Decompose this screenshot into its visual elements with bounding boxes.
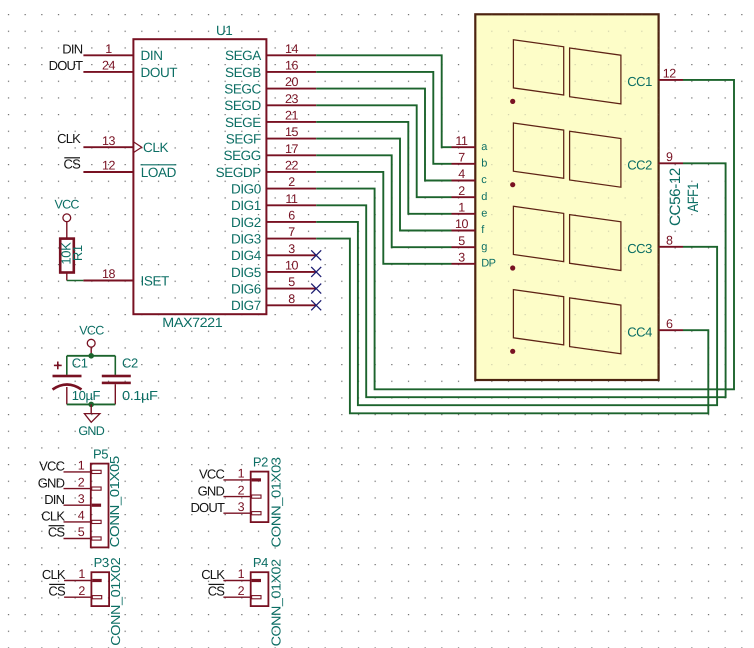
- svg-text:C1: C1: [72, 355, 88, 370]
- svg-text:DP: DP: [481, 257, 495, 269]
- svg-text:8: 8: [666, 234, 673, 248]
- digit 2 left segment block: [513, 123, 563, 178]
- svg-text:VCC: VCC: [79, 323, 104, 337]
- svg-text:ISET: ISET: [141, 273, 170, 288]
- svg-text:P4: P4: [253, 555, 268, 570]
- svg-text:GND: GND: [78, 424, 104, 438]
- pin 7 DIG3 of U1: [266, 238, 316, 240]
- svg-text:DIG1: DIG1: [231, 198, 261, 213]
- pin 1 of P2: [223, 479, 250, 481]
- wire SEGD-d: [316, 105, 451, 197]
- svg-text:MAX7221: MAX7221: [162, 315, 222, 330]
- pin 4 c of AFF1: [452, 180, 476, 182]
- pin 1 of P4: [223, 580, 250, 582]
- svg-text:VCC: VCC: [39, 459, 64, 474]
- pin 24 DOUT of U1: [83, 71, 133, 73]
- pin 2 of P2: [223, 496, 250, 498]
- pin 5 DIG6 of U1: [266, 288, 316, 290]
- svg-text:2: 2: [238, 584, 245, 598]
- svg-text:12: 12: [663, 67, 677, 81]
- svg-text:12: 12: [102, 159, 116, 173]
- svg-text:CC56-12: CC56-12: [667, 168, 684, 226]
- svg-text:CS: CS: [208, 583, 226, 598]
- svg-text:SEGE: SEGE: [225, 115, 261, 130]
- svg-text:10µF: 10µF: [72, 388, 101, 403]
- svg-text:DIG3: DIG3: [231, 232, 261, 247]
- svg-text:23: 23: [285, 92, 299, 106]
- svg-text:17: 17: [285, 142, 299, 156]
- wire SEGF-f: [316, 139, 451, 231]
- svg-text:CC1: CC1: [627, 74, 652, 89]
- svg-text:P5: P5: [93, 447, 108, 462]
- pin 12 CC1 of AFF1: [659, 79, 683, 81]
- svg-text:SEGA: SEGA: [225, 48, 261, 63]
- pin 6 CC4 of AFF1: [659, 329, 683, 331]
- svg-text:13: 13: [102, 134, 116, 148]
- pin 1 DIN of U1: [83, 54, 133, 56]
- svg-text:g: g: [481, 241, 487, 253]
- wire to C2 top: [114, 356, 116, 375]
- digit 3 left segment block: [513, 206, 563, 261]
- svg-text:C2: C2: [122, 355, 138, 370]
- svg-text:DOUT: DOUT: [190, 500, 224, 515]
- ground symbol: [90, 404, 92, 413]
- digit 2 right segment block: [570, 131, 621, 187]
- pin 16 SEGB of U1: [266, 71, 316, 73]
- svg-text:SEGDP: SEGDP: [216, 165, 262, 180]
- pin 1 of P5: [64, 471, 91, 473]
- pin 7 b of AFF1: [452, 163, 476, 165]
- pin 2 d of AFF1: [452, 196, 476, 198]
- svg-text:P3: P3: [94, 555, 109, 570]
- digit 3 right segment block: [570, 215, 621, 271]
- svg-text:6: 6: [288, 208, 295, 222]
- pin 11 a of AFF1: [452, 146, 476, 148]
- capacitor C2: [102, 375, 131, 378]
- svg-text:2: 2: [238, 483, 245, 497]
- svg-text:15: 15: [285, 125, 299, 139]
- wire to C1 top: [66, 356, 68, 375]
- svg-text:DIN: DIN: [141, 48, 163, 63]
- svg-text:24: 24: [102, 59, 116, 73]
- pin 6 DIG2 of U1: [266, 221, 316, 223]
- svg-text:4: 4: [78, 509, 85, 523]
- pin 1 e of AFF1: [452, 213, 476, 215]
- pin 21 SEGE of U1: [266, 121, 316, 123]
- svg-text:CS: CS: [48, 583, 66, 598]
- pin 11 DIG1 of U1: [266, 204, 316, 206]
- svg-text:10: 10: [455, 217, 469, 231]
- svg-text:CONN_01X02: CONN_01X02: [268, 559, 283, 646]
- digit 4 right segment block: [570, 298, 621, 354]
- svg-text:DOUT: DOUT: [141, 65, 178, 80]
- R1 bottom lead: [66, 273, 68, 281]
- pin 8 CC3 of AFF1: [659, 246, 683, 248]
- wire SEGC-c: [316, 89, 451, 181]
- svg-text:e: e: [481, 207, 487, 219]
- pin 2 of P3: [64, 596, 91, 598]
- pin 2 DIG0 of U1: [266, 188, 316, 190]
- svg-text:DIG5: DIG5: [231, 265, 261, 280]
- pin 4 of P5: [64, 521, 91, 523]
- svg-text:7: 7: [458, 151, 465, 165]
- svg-text:1: 1: [238, 467, 245, 481]
- pin 18 ISET of U1: [83, 280, 133, 282]
- wire GND rail: [67, 403, 116, 405]
- svg-text:5: 5: [458, 234, 465, 248]
- pin 23 SEGD of U1: [266, 104, 316, 106]
- svg-text:16: 16: [285, 58, 299, 72]
- svg-text:1: 1: [238, 567, 245, 581]
- pin 12 LOAD of U1: [83, 171, 133, 173]
- svg-text:U1: U1: [216, 23, 232, 38]
- digit 4 left segment block: [513, 290, 563, 345]
- wire VCC to R1: [66, 222, 68, 239]
- svg-text:5: 5: [288, 275, 295, 289]
- clock input symbol: [133, 142, 141, 153]
- svg-text:LOAD: LOAD: [141, 165, 177, 180]
- pin 14 SEGA of U1: [266, 54, 316, 56]
- svg-text:14: 14: [285, 42, 299, 56]
- junction GND: [88, 402, 94, 408]
- svg-text:DIN: DIN: [62, 41, 82, 56]
- svg-text:1: 1: [105, 42, 112, 56]
- svg-text:CC2: CC2: [627, 158, 652, 173]
- svg-text:5: 5: [78, 525, 85, 539]
- capacitor C1 (polarized): [53, 375, 82, 378]
- C1 bottom lead: [66, 387, 68, 404]
- wire SEGA-a: [316, 55, 451, 147]
- svg-text:0.1µF: 0.1µF: [122, 388, 158, 403]
- IC U1 MAX7221 body: [133, 39, 266, 314]
- svg-text:DIG4: DIG4: [231, 248, 262, 263]
- pin 1 of P3: [64, 580, 91, 582]
- svg-text:R1: R1: [70, 245, 85, 261]
- svg-text:CLK: CLK: [201, 567, 225, 582]
- digit 1 decimal point: [510, 99, 515, 104]
- no-connect mark: [311, 267, 321, 277]
- svg-text:P2: P2: [253, 455, 268, 470]
- svg-text:3: 3: [238, 500, 245, 514]
- junction VCC: [88, 353, 94, 359]
- pin 10 DIG5 of U1: [266, 271, 316, 273]
- svg-text:CONN_01X02: CONN_01X02: [108, 558, 123, 646]
- wire SEGB-b: [316, 72, 451, 164]
- pin 3 of P2: [223, 512, 250, 514]
- svg-text:CONN_01X03: CONN_01X03: [268, 457, 283, 547]
- svg-text:DIN: DIN: [44, 492, 64, 507]
- svg-text:b: b: [481, 157, 487, 169]
- svg-text:SEGG: SEGG: [223, 148, 260, 163]
- pin 17 SEGG of U1: [266, 154, 316, 156]
- pin 22 SEGDP of U1: [266, 171, 316, 173]
- C2 bottom lead: [114, 384, 116, 404]
- wire R1 to ISET: [67, 280, 84, 282]
- wire SEGE-e: [316, 122, 451, 214]
- svg-text:9: 9: [666, 150, 673, 164]
- digit 2 decimal point: [510, 182, 515, 187]
- svg-text:AFF1: AFF1: [685, 183, 702, 212]
- no-connect mark: [311, 300, 321, 310]
- pin 3 of P5: [64, 504, 91, 506]
- svg-text:SEGD: SEGD: [224, 98, 261, 113]
- svg-text:3: 3: [78, 492, 85, 506]
- svg-text:21: 21: [285, 108, 299, 122]
- wire DIG0-CC1: [316, 80, 734, 389]
- wire SEGG-g: [316, 155, 451, 247]
- digit 4 decimal point: [510, 349, 515, 354]
- svg-text:1: 1: [458, 201, 465, 215]
- svg-text:2: 2: [78, 584, 85, 598]
- svg-text:CLK: CLK: [41, 509, 65, 524]
- no-connect mark: [311, 284, 321, 294]
- svg-text:DIG2: DIG2: [231, 215, 261, 230]
- svg-text:2: 2: [288, 175, 295, 189]
- svg-text:11: 11: [285, 192, 298, 206]
- connector P2 CONN_01X03 body: [251, 472, 269, 522]
- wire DIG2-CC3: [316, 222, 717, 405]
- svg-text:CLK: CLK: [57, 131, 81, 146]
- display AFF1 body: [475, 14, 658, 380]
- svg-text:22: 22: [285, 158, 299, 172]
- VCC stem: [90, 347, 92, 356]
- wire VCC rail: [67, 355, 116, 357]
- pin 13 CLK of U1: [83, 146, 133, 148]
- svg-text:CS: CS: [64, 156, 82, 171]
- svg-text:CC3: CC3: [627, 241, 652, 256]
- svg-text:3: 3: [288, 242, 295, 256]
- pin 3 DIG4 of U1: [266, 254, 316, 256]
- pin 2 of P5: [64, 488, 91, 490]
- pin 2 of P4: [223, 596, 250, 598]
- wire DIG1-CC2: [316, 163, 725, 397]
- svg-text:CLK: CLK: [42, 567, 66, 582]
- connector P4 CONN_01X02 body: [251, 572, 269, 606]
- svg-text:DIG0: DIG0: [231, 182, 261, 197]
- svg-text:GND: GND: [38, 475, 65, 490]
- svg-text:DIG6: DIG6: [231, 282, 261, 297]
- svg-text:1: 1: [78, 567, 85, 581]
- svg-text:VCC: VCC: [199, 467, 224, 482]
- svg-text:CC4: CC4: [627, 325, 652, 340]
- pin 8 DIG7 of U1: [266, 304, 316, 306]
- pin 5 of P5: [64, 538, 91, 540]
- svg-text:18: 18: [102, 267, 116, 281]
- svg-text:2: 2: [78, 475, 85, 489]
- svg-text:6: 6: [666, 317, 673, 331]
- svg-text:10: 10: [285, 258, 299, 272]
- pin 5 g of AFF1: [452, 246, 476, 248]
- digit 3 decimal point: [510, 265, 515, 270]
- wire DIG3-CC4: [316, 239, 708, 414]
- svg-text:SEGF: SEGF: [226, 132, 261, 147]
- svg-text:SEGC: SEGC: [224, 82, 261, 97]
- svg-text:DOUT: DOUT: [49, 58, 83, 73]
- svg-text:CONN_01X05: CONN_01X05: [107, 456, 122, 547]
- digit 1 right segment block: [570, 48, 621, 104]
- svg-text:SEGB: SEGB: [225, 65, 261, 80]
- svg-text:2: 2: [458, 184, 465, 198]
- connector P3 CONN_01X02 body: [91, 572, 109, 606]
- no-connect mark: [311, 250, 321, 260]
- svg-text:VCC: VCC: [54, 197, 79, 211]
- pin 9 CC2 of AFF1: [659, 162, 683, 164]
- pin 20 SEGC of U1: [266, 88, 316, 90]
- svg-text:8: 8: [288, 292, 295, 306]
- svg-text:3: 3: [458, 251, 465, 265]
- svg-text:1: 1: [78, 459, 85, 473]
- pin 3 DP of AFF1: [452, 263, 476, 265]
- svg-text:7: 7: [288, 225, 295, 239]
- pin 15 SEGF of U1: [266, 138, 316, 140]
- connector P5 CONN_01X05 body: [91, 464, 109, 548]
- resistor R1: [60, 239, 74, 273]
- wire SEGDP-DP: [316, 172, 451, 264]
- digit 1 left segment block: [513, 40, 563, 95]
- CS overline: [64, 157, 80, 159]
- svg-text:11: 11: [455, 134, 468, 148]
- svg-text:CLK: CLK: [143, 140, 168, 155]
- svg-text:4: 4: [458, 167, 465, 181]
- svg-text:CS: CS: [48, 525, 66, 540]
- svg-text:d: d: [481, 191, 487, 203]
- svg-text:20: 20: [285, 75, 299, 89]
- LOAD overline: [141, 164, 177, 166]
- C1 plus sign: [54, 364, 62, 366]
- svg-text:DIG7: DIG7: [231, 298, 261, 313]
- pin 10 f of AFF1: [452, 230, 476, 232]
- svg-text:GND: GND: [198, 483, 225, 498]
